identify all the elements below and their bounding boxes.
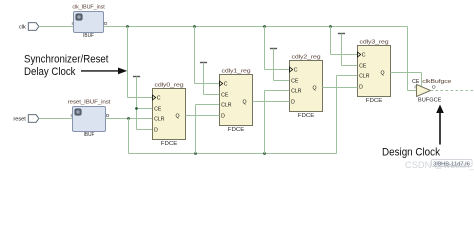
svg-text:CE: CE	[291, 79, 299, 85]
svg-text:O: O	[106, 113, 110, 118]
wire cdly1 Q to cdly2 D	[253, 101, 290, 103]
svg-text:CLR: CLR	[291, 89, 302, 95]
svg-text:Q: Q	[312, 86, 316, 92]
svg-text:Q: Q	[175, 114, 179, 120]
flip-flop cdly2_reg (FDCE)	[290, 61, 323, 112]
svg-text:IBUF: IBUF	[84, 132, 95, 138]
junction clk rail to cdly0	[126, 25, 129, 28]
flip-flop cdly1_reg (FDCE)	[220, 75, 253, 126]
svg-text:clkBufgce: clkBufgce	[422, 79, 451, 85]
svg-text:D: D	[221, 114, 225, 120]
junction clk rail to cdly2	[263, 25, 266, 28]
wire reset drop and bottom rail	[128, 119, 130, 154]
svg-text:I: I	[414, 84, 415, 90]
svg-text:FDCE: FDCE	[366, 98, 383, 104]
wire cdly0 Q to cdly1 D	[186, 115, 220, 117]
junction clk rail to cdly1	[193, 25, 196, 28]
power const1 tie for cdly2	[270, 48, 277, 50]
svg-text:clk_IBUF_inst: clk_IBUF_inst	[72, 5, 105, 11]
buffer clkBufgce (BUFGCE) triangle	[417, 85, 431, 97]
svg-text:D: D	[154, 128, 158, 134]
svg-text:Q: Q	[242, 100, 246, 106]
svg-text:FDCE: FDCE	[161, 141, 178, 147]
svg-text:CE: CE	[154, 107, 162, 113]
wire clk riser to cdly2 C	[264, 27, 266, 70]
svg-text:C: C	[224, 82, 228, 88]
svg-text:cdly3_reg: cdly3_reg	[360, 40, 389, 46]
svg-text:C: C	[362, 53, 366, 59]
svg-text:3I8HB-11d7.I6: 3I8HB-11d7.I6	[433, 161, 470, 167]
svg-text:CLR: CLR	[154, 117, 165, 123]
svg-text:CLR: CLR	[359, 74, 370, 80]
wire reset riser to cdly3 CLR	[336, 76, 338, 154]
svg-text:C: C	[294, 68, 298, 74]
buffer reset_IBUF_inst (IBUF)	[73, 107, 106, 132]
wire clk port to IBUF	[39, 26, 74, 28]
junction bottom rail to cdly2	[263, 152, 266, 155]
svg-text:O: O	[432, 84, 436, 90]
svg-text:cdly2_reg: cdly2_reg	[292, 55, 321, 61]
power const1 tie for cdly3	[338, 33, 345, 35]
wire BUFGCE output (dashed off-page)	[431, 90, 474, 92]
flip-flop cdly0_reg (FDCE)	[153, 89, 186, 140]
svg-text:FDCE: FDCE	[298, 113, 315, 119]
svg-text:C: C	[157, 96, 161, 102]
wire reset to cdly0 CLR	[106, 118, 153, 120]
svg-text:reset_IBUF_inst: reset_IBUF_inst	[68, 100, 111, 106]
svg-text:D: D	[291, 100, 295, 106]
wire reset riser to cdly1 CLR	[195, 105, 197, 154]
svg-text:cdly0_reg: cdly0_reg	[155, 83, 184, 89]
junction clk rail to cdly3	[329, 25, 332, 28]
buffer clk_IBUF_inst (IBUF)	[74, 12, 104, 33]
svg-text:Delay Clock: Delay Clock	[24, 66, 76, 78]
flip-flop cdly3_reg (FDCE)	[358, 46, 391, 97]
wire clk riser to cdly3 C	[330, 27, 332, 55]
wire clk rail drop to BUFGCE I	[407, 27, 409, 91]
watermark user id overlay	[432, 160, 473, 167]
svg-text:O: O	[104, 21, 108, 26]
wire cdly2 Q to cdly3 D	[323, 87, 358, 89]
svg-text:BUFGCE: BUFGCE	[418, 97, 442, 103]
power const1 tie for cdly0	[133, 76, 140, 78]
svg-text:Synchronizer/Reset: Synchronizer/Reset	[24, 54, 109, 66]
svg-text:reset: reset	[13, 117, 26, 123]
junction reset branch	[127, 117, 130, 120]
svg-text:Design Clock: Design Clock	[382, 146, 440, 158]
wire clk rail	[104, 26, 408, 28]
svg-text:Q: Q	[380, 71, 384, 77]
svg-text:FDCE: FDCE	[228, 127, 245, 133]
power const1 tie for cdly1	[200, 62, 207, 64]
annotation arrow to design clock	[439, 111, 441, 145]
wire reset riser to cdly2 CLR	[264, 91, 266, 154]
svg-text:CE: CE	[412, 79, 420, 85]
wire reset port to IBUF	[39, 118, 73, 120]
svg-text:CE: CE	[359, 64, 367, 70]
svg-text:I: I	[71, 113, 72, 118]
svg-text:I: I	[72, 21, 73, 26]
annotation arrow to delay clock net	[81, 70, 120, 72]
svg-text:cdly1_reg: cdly1_reg	[222, 69, 251, 75]
svg-text:CLR: CLR	[221, 103, 232, 109]
svg-text:CE: CE	[221, 93, 229, 99]
wire clk riser to cdly1 C	[194, 27, 196, 84]
junction bottom rail to cdly1	[194, 152, 197, 155]
wire clk riser to cdly0 C	[127, 27, 129, 98]
svg-text:D: D	[359, 85, 363, 91]
svg-text:clk: clk	[19, 25, 26, 31]
wire cdly3 Q to BUFGCE CE	[391, 72, 422, 74]
svg-text:IBUF: IBUF	[83, 33, 94, 39]
